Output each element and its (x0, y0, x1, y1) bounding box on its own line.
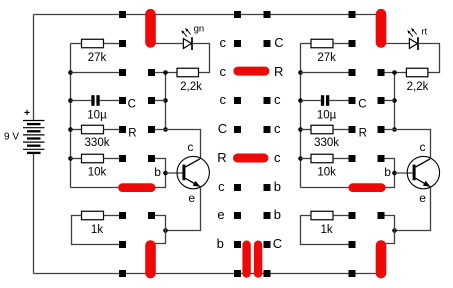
wire row2 link right block (301, 72, 349, 74)
wire row2 link left block (71, 72, 120, 74)
node Q1 base junction (163, 171, 168, 176)
wire 2.2k right block left lead (381, 72, 406, 74)
svg-text:b: b (274, 179, 281, 194)
wire 330k right block left lead (301, 129, 312, 131)
wire 1k left loop (72, 216, 120, 245)
node contact C8 row4 (349, 126, 356, 133)
node left collector column row2 (163, 70, 168, 75)
svg-text:c: c (187, 140, 193, 154)
resistor 10k (left) (82, 154, 104, 163)
jumper red vertical center right (254, 241, 262, 278)
node right collector column row3 (392, 98, 397, 103)
node contact C5 row9 (264, 270, 271, 277)
LED D1 gn (181, 28, 192, 50)
svg-text:b: b (274, 207, 281, 222)
node right rail junction row2 (298, 70, 303, 75)
wire 10u right lead (100, 100, 119, 102)
node contact C5 row4 (264, 126, 271, 133)
wire left collector column (165, 73, 167, 130)
node right collector column row2 (392, 70, 397, 75)
wire 10u left lead (71, 100, 92, 102)
resistor 1k (right) (311, 211, 333, 220)
svg-text:e: e (217, 207, 224, 222)
node contact C8 row8 (349, 241, 356, 248)
node contact C0 row2 (119, 69, 126, 76)
svg-text:10k: 10k (317, 167, 336, 179)
wire 10u right block right lead (329, 100, 348, 102)
node contact C8 row0 (349, 11, 356, 18)
svg-text:R: R (359, 127, 367, 139)
node contact C4 row8 (234, 241, 241, 248)
node contact C8 row5 (349, 155, 356, 162)
svg-text:10µ: 10µ (317, 110, 337, 122)
node contact C5 row6 (264, 184, 271, 191)
svg-text:rt: rt (421, 26, 427, 37)
jumper red horizontal row2 center (233, 67, 269, 76)
svg-text:c: c (274, 121, 281, 136)
node contact C8 row3 (349, 97, 356, 104)
wire C1 row7 to ground jumper (151, 216, 166, 244)
node contact C4 row9 (234, 270, 241, 277)
node right collector column row4 (392, 127, 397, 132)
node contact C0 row5 (119, 155, 126, 162)
svg-text:2,2k: 2,2k (407, 81, 429, 93)
wire 10u right block left lead (301, 100, 321, 102)
node contact C0 row3 (119, 97, 126, 104)
wire 1k right block right lead (333, 215, 349, 217)
node contact C9 row3 (378, 97, 385, 104)
svg-text:c: c (218, 179, 225, 194)
jumper red horizontal row6 right (348, 183, 385, 192)
wire base feed Q2 (381, 159, 395, 188)
node left rail junction row2 (68, 70, 73, 75)
node emitter junction left (163, 228, 168, 233)
svg-text:C: C (358, 98, 366, 110)
svg-text:b: b (384, 165, 391, 179)
wire 10k right lead (104, 158, 120, 160)
svg-text:R: R (217, 150, 226, 165)
wire 1k right block left loop (301, 216, 349, 245)
svg-text:e: e (419, 191, 426, 205)
node right rail junction row5 (298, 156, 303, 161)
node contact C5 row3 (264, 97, 271, 104)
wire 27k right block right lead (333, 43, 349, 45)
wire 330k right block right lead (333, 129, 349, 131)
node left collector column row4 (163, 127, 168, 132)
resistor 10k (right) (311, 154, 333, 163)
resistor 2.2k (right) (406, 68, 428, 77)
wire 27k right block left lead (301, 43, 312, 45)
node emitter junction right (392, 228, 397, 233)
node right rail junction row3 (298, 98, 303, 103)
jumper red vertical bottom C1 (145, 240, 156, 278)
node contact C0 row7 (119, 212, 126, 219)
wire collector jog row4 left (152, 130, 201, 159)
node left collector column row3 (163, 98, 168, 103)
svg-text:c: c (274, 92, 281, 107)
svg-text:c: c (420, 140, 426, 154)
node contact C5 row1 (264, 40, 271, 47)
svg-text:10k: 10k (88, 167, 107, 179)
node contact C1 row7 (148, 212, 155, 219)
node contact C8 row7 (349, 212, 356, 219)
svg-text:c: c (220, 64, 227, 79)
wire 2.2k left lead (152, 72, 178, 74)
jumper red vertical top C1 (145, 9, 156, 48)
resistor 1k (left) (82, 211, 104, 220)
node left rail junction row4 (68, 127, 73, 132)
node contact C1 row4 (148, 126, 155, 133)
node contact C0 row0 (119, 11, 126, 18)
wire 10k right block left lead (301, 158, 312, 160)
svg-text:10µ: 10µ (87, 110, 107, 122)
capacitor 10u (left) (91, 95, 99, 106)
node contact C4 row0 (234, 11, 241, 18)
node contact C8 row9 (349, 270, 356, 277)
node contact C0 row8 (119, 241, 126, 248)
wire 10k right block right lead (333, 158, 349, 160)
svg-text:c: c (220, 35, 227, 50)
wire Q2 emitter down (395, 187, 431, 231)
svg-text:c: c (274, 150, 281, 165)
wire LED rt anode lead (380, 43, 410, 45)
node contact C9 row7 (378, 212, 385, 219)
node left rail junction row5 (68, 156, 73, 161)
battery B1 9V (23, 15, 45, 274)
jumper red vertical top C9 (376, 9, 387, 48)
node left rail junction row3 (68, 98, 73, 103)
node contact C0 row4 (119, 126, 126, 133)
node contact C9 row4 (378, 126, 385, 133)
node contact C4 row4 (234, 126, 241, 133)
wire C1 row3 stub (152, 100, 166, 102)
node contact C9 row2 (378, 69, 385, 76)
svg-text:1k: 1k (321, 224, 333, 236)
node contact C1 row2 (148, 69, 155, 76)
wire LED gn anode lead (151, 43, 184, 45)
svg-text:C: C (128, 98, 136, 110)
resistor 27k (right) (311, 39, 333, 48)
wire 27k left lead (71, 43, 82, 45)
jumper red vertical center left (242, 241, 250, 278)
jumper red horizontal row5 center (233, 154, 269, 163)
svg-text:330k: 330k (85, 137, 110, 149)
svg-text:C: C (274, 35, 283, 50)
svg-text:c: c (220, 92, 227, 107)
resistor 27k (left) (82, 39, 104, 48)
transistor Q2 (407, 156, 439, 188)
node contact C1 row5 (148, 155, 155, 162)
wire Q1 emitter down (166, 187, 201, 231)
wire 1k right lead (104, 215, 120, 217)
wire base feed Q1 (152, 159, 166, 188)
node contact C4 row1 (234, 40, 241, 47)
wire collector jog row4 right (381, 130, 431, 159)
node contact C5 row7 (264, 212, 271, 219)
svg-text:R: R (274, 64, 283, 79)
node contact C4 row3 (234, 97, 241, 104)
node contact C8 row2 (349, 69, 356, 76)
svg-text:C: C (218, 121, 227, 136)
jumper red horizontal row6 left (118, 183, 155, 192)
wire 10k left lead (71, 158, 82, 160)
node contact C8 row1 (349, 40, 356, 47)
wire right collector column (394, 73, 396, 130)
wire right bias rail (301, 44, 353, 188)
net labels centre column (217, 35, 284, 251)
node contact C0 row1 (119, 40, 126, 47)
jumper red vertical bottom C9 (376, 240, 387, 278)
wire LED rt cathode to 2.2k (418, 44, 440, 73)
wire 330k left lead (71, 129, 82, 131)
svg-text:1k: 1k (91, 224, 103, 236)
node contact C5 row8 (264, 241, 271, 248)
svg-text:330k: 330k (314, 137, 339, 149)
wire bottom supply rail (34, 273, 382, 275)
svg-text:e: e (188, 191, 195, 205)
resistor 330k (left) (82, 125, 104, 134)
wire Q1 base lead (166, 172, 183, 174)
resistor 2.2k (left) (177, 68, 199, 77)
svg-text:27k: 27k (88, 52, 107, 64)
svg-text:gn: gn (194, 24, 205, 35)
resistor 330k (right) (311, 125, 333, 134)
node Q2 base junction (392, 171, 397, 176)
transistor Q1 (177, 156, 209, 188)
wire 330k right lead (104, 129, 120, 131)
node contact C5 row0 (264, 11, 271, 18)
svg-text:C: C (273, 236, 282, 251)
svg-text:27k: 27k (317, 52, 336, 64)
wire 27k right lead (104, 43, 120, 45)
node contact C4 row7 (234, 212, 241, 219)
wire left bias rail (71, 44, 123, 188)
svg-text:+: + (24, 107, 30, 119)
wire LED gn cathode to 2.2k (192, 44, 210, 73)
svg-text:b: b (217, 236, 224, 251)
capacitor 10u (right) (321, 95, 329, 106)
node contact C0 row9 (119, 270, 126, 277)
LED D2 rt (407, 28, 418, 50)
wire top supply rail (34, 14, 382, 16)
node contact C4 row6 (234, 184, 241, 191)
wire Q2 base lead (395, 172, 413, 174)
node contact C1 row3 (148, 97, 155, 104)
wire C9 row7 to ground jumper (381, 216, 395, 244)
svg-text:R: R (128, 127, 136, 139)
svg-text:9 V: 9 V (4, 132, 19, 143)
svg-text:2,2k: 2,2k (180, 81, 202, 93)
wire C9 row3 stub (381, 100, 395, 102)
svg-text:b: b (154, 165, 161, 179)
node right rail junction row4 (298, 127, 303, 132)
node contact C9 row5 (378, 155, 385, 162)
